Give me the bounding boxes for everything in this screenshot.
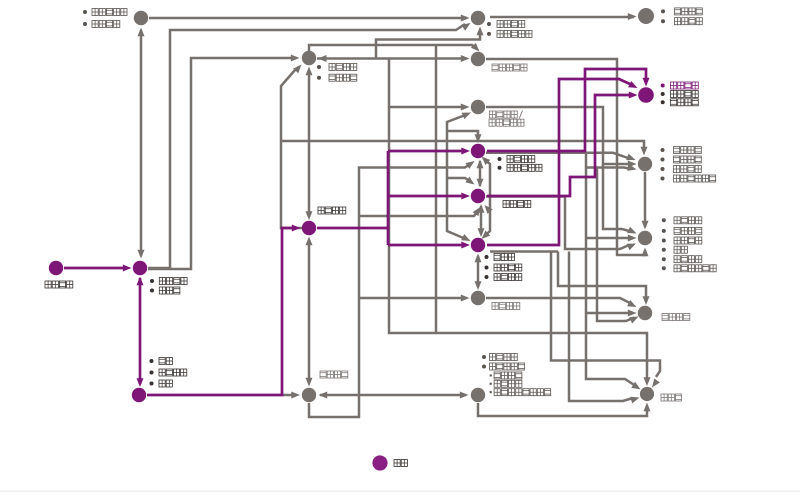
label: graphical models list (485, 255, 489, 259)
wire: branch up into parallel-computing bottom (376, 32, 480, 58)
node: machine learning (core) (302, 221, 316, 235)
wire: data-science to data-visualization (317, 57, 464, 60)
wire: reinforcement-learning to applications lower-left (486, 197, 629, 250)
label: applications list (662, 218, 666, 222)
wire: channel into deep-learning top (447, 131, 478, 139)
wire: computer-architecture to parallel-computing (149, 17, 467, 20)
label: big data line1 (490, 111, 496, 118)
wire: deep-learning to computer-vision (purple, top) (487, 69, 646, 151)
wire: reinforcement-learning to computer-vision (purple, left) (487, 95, 632, 196)
wire: big-data <-> graphical-models (bidirectional diagonals) (447, 114, 468, 240)
wire: machine-learning <-> artificial-intelligence (bidirectional) (308, 240, 311, 383)
label: reinforcement learning (503, 201, 509, 208)
node: big data (471, 100, 485, 114)
node: deep learning (core) (471, 144, 485, 158)
wire: graphical-models lower channel (490, 250, 558, 253)
wire: branch into applications left (586, 237, 632, 240)
legend: core label (394, 460, 400, 467)
wire: algorithms to parallel-computing (diagonal into node) (148, 24, 465, 268)
node: data structures / algorithms (core) (133, 261, 147, 275)
wire: long drop channel (435, 45, 438, 333)
wire: deep-learning chain down to robots upper-left (586, 153, 635, 386)
wire: data-structures <-> computer-architecture (bidirectional) (140, 30, 143, 256)
wire: machine-learning to deep-learning (purple) (388, 150, 466, 153)
node: data science (302, 51, 316, 65)
node: probability / linear algebra / statistics (core) (132, 388, 146, 402)
wire: branch into robots top-right (551, 252, 660, 378)
wire: chain branch into speech-recognition lower-left (586, 168, 631, 170)
label: robots (661, 394, 667, 401)
wire: data-science top exit to data-visualization top (309, 45, 477, 51)
node: fuzzy systems / optimization (471, 388, 485, 402)
bottom hairline (0, 491, 800, 492)
label: programming languages (45, 281, 51, 288)
wire: branch to big-data (389, 106, 464, 109)
wire: machine-learning to graphical-models (purple) (388, 244, 466, 247)
wire: fuzzy-systems loop into robots bottom (478, 403, 647, 416)
wire: data-visualization to applications bottom loop (486, 59, 645, 255)
wire: data-science <-> machine-learning (straight bidirectional) (308, 70, 311, 217)
label: data visualization (492, 64, 498, 71)
wire: artificial-intelligence <-> fuzzy-systems (bidirectional) (320, 394, 466, 397)
wire: data-science drop channel into robots top (389, 58, 647, 381)
wire: AI loop up into deep-learning lower-left (309, 164, 471, 418)
wire: big-data chain into applications upper-left (603, 164, 631, 232)
wire: machine-learning purple spine feed (317, 227, 388, 230)
node: programming languages (core) (49, 261, 63, 275)
wire: math to machine-learning (purple) (147, 228, 296, 395)
wire: big-data to speech-recognition (486, 107, 630, 164)
wire: channel to speech-recognition top (281, 141, 644, 152)
wire: parallel-computing to cloud (490, 16, 634, 19)
wire: intelligent-agents to computer-game-playing (486, 298, 631, 304)
label: data science list (317, 65, 321, 69)
wire: branch to intelligent-agents (359, 297, 465, 300)
node: computer game playing (638, 306, 652, 320)
wire: branch into computer-game-playing top (558, 252, 646, 303)
wire: machine-learning to reinforcement-learning (purple) (388, 195, 466, 198)
label: cloud list (661, 9, 665, 13)
node: reinforcement learning (core) (471, 189, 485, 203)
label: computer vision list (661, 84, 665, 88)
label: speech/NLP list (661, 148, 665, 152)
wire: branch into computer-game-playing lower-left (597, 167, 634, 321)
wire: programming-languages to data-structures (purple) (64, 267, 128, 270)
node: parallel computing (471, 11, 485, 25)
wire: branch up into reinforcement-learning bottom (359, 211, 479, 217)
node: graphical models (core) (471, 238, 485, 252)
label: big data line2 (489, 119, 495, 126)
label: math list (150, 359, 154, 363)
node: applications (bioinformatics etc.) (638, 231, 652, 245)
node: data visualization (471, 52, 485, 66)
node: speech recognition / NLP (638, 157, 652, 171)
node: computer vision (core) (638, 87, 654, 103)
node: intelligent agents (471, 291, 485, 305)
wire: deep-learning to speech-recognition (486, 153, 628, 158)
node: computer architecture / OS (134, 11, 148, 25)
wire: stub into artificial-intelligence left (283, 394, 296, 397)
wire: deep-learning <-> graphical-models ladder (484, 159, 490, 237)
wire: graphical-models <-> intelligent-agents (bidirectional) (477, 256, 480, 287)
label: machine learning (318, 207, 324, 214)
wire: stub into reinforcement-learning bottom-right (487, 208, 490, 212)
wire: deep-learning <-> reinforcement-learning (479, 161, 482, 186)
wire: data-structures <-> math (purple bidirectional) (139, 278, 142, 384)
wire: purple spine vertical (387, 151, 390, 245)
label: artificial intelligence (320, 371, 326, 378)
wire: graphical-models to computer-vision (purple, diagonal) (487, 79, 631, 245)
wire: ladder branch into reinforcement-learning top-left (447, 178, 471, 182)
wire: branch into robots lower-left (569, 252, 633, 402)
wire: machine-learning to data-science (bent, diagonal arrow) (281, 70, 302, 228)
wire: algorithms to data-science (148, 58, 296, 269)
label: intelligent agents (492, 303, 498, 310)
wire: speech-recognition to applications (644, 172, 647, 227)
legend: core dot (372, 455, 387, 470)
label: data structures list (150, 279, 154, 283)
label: parallel computing list (487, 22, 491, 26)
node: robots (640, 387, 654, 401)
node: artificial intelligence (302, 388, 316, 402)
wire: reinforcement-learning <-> graphical-models (480, 206, 483, 234)
label: computer game playing (662, 314, 668, 321)
node: cloud systems (638, 8, 654, 24)
label: fuzzy/optimization list (482, 355, 486, 359)
label: deep learning list (498, 157, 502, 161)
label: computer architecture list (83, 10, 87, 14)
wire: branch into computer-game-playing left (586, 312, 630, 315)
